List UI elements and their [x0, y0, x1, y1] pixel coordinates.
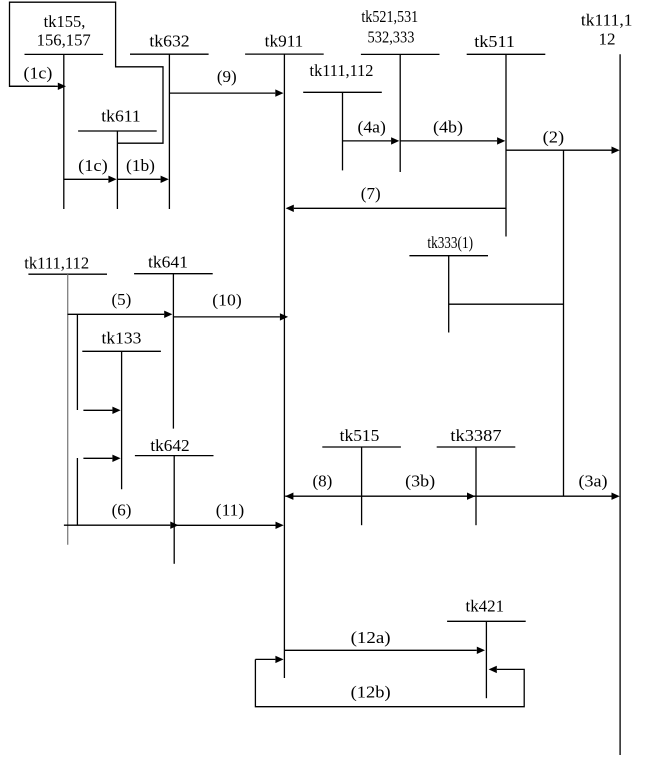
svg-text:tk111,112: tk111,112	[24, 254, 89, 273]
tk111,12 right lifeline	[619, 54, 621, 755]
svg-text:532,333: 532,333	[368, 28, 415, 47]
arrow (5): tk111,112 to tk641	[68, 313, 165, 315]
svg-text:tk133: tk133	[102, 329, 142, 348]
svg-text:tk111,1: tk111,1	[581, 11, 633, 30]
tk611 head bar	[78, 130, 157, 132]
tk111,112 left head bar	[28, 273, 107, 275]
arrow (11): tk642 to tk911	[174, 524, 275, 526]
arrowhead (12b) into tk421	[489, 666, 497, 673]
svg-text:tk111,112: tk111,112	[310, 61, 374, 80]
arrow (2): tk511 to tk111,12	[506, 149, 612, 151]
svg-text:(8): (8)	[312, 472, 332, 491]
tk155 lifeline	[63, 54, 65, 209]
svg-text:tk3387: tk3387	[450, 426, 502, 445]
wire tk333(1) link to drop wire	[449, 303, 564, 305]
arrow (1b): tk611 to tk632	[117, 178, 160, 180]
tk111,112 top lifeline	[342, 92, 344, 170]
svg-text:tk611: tk611	[101, 107, 141, 126]
tk611 lifeline	[116, 131, 118, 209]
svg-text:(12b): (12b)	[351, 682, 391, 701]
svg-text:(12a): (12a)	[351, 628, 391, 647]
tk632 lifeline	[168, 54, 170, 209]
arrow (4a): tk111,112 to tk521	[343, 140, 392, 142]
wire (1c) wrap path from tk611 around top-left	[10, 2, 164, 143]
tk911 lifeline	[283, 54, 285, 678]
wire (12b) hook into tk911	[255, 658, 275, 660]
svg-text:tk511: tk511	[474, 32, 515, 51]
tk3387 lifeline	[475, 447, 477, 525]
arrow (12a): tk911 to tk421	[285, 649, 477, 651]
svg-text:(4a): (4a)	[358, 117, 386, 136]
tk642 lifeline	[173, 456, 175, 564]
tk641 head bar	[134, 273, 213, 275]
wire branch down from arrow (5) row	[76, 314, 78, 410]
tk511 lifeline	[505, 54, 507, 236]
tk333(1) lifeline	[448, 256, 450, 333]
arrow to tk133 upper	[83, 409, 112, 411]
svg-text:tk642: tk642	[150, 436, 189, 455]
arrowhead (1c) into tk155 lifeline	[58, 83, 66, 90]
wire (12b) loop bottom	[255, 659, 524, 706]
tk515 head bar	[322, 446, 401, 448]
tk133 lifeline	[121, 351, 123, 489]
arrow (9): tk632 to tk911	[170, 92, 276, 94]
svg-text:tk333(1): tk333(1)	[427, 233, 473, 252]
svg-text:(11): (11)	[216, 501, 245, 520]
svg-text:(7): (7)	[361, 184, 381, 203]
svg-text:(1b): (1b)	[126, 156, 155, 175]
tk521 lifeline	[399, 54, 401, 172]
arrowhead (8) into tk911	[285, 493, 293, 500]
wire branch down to arrow (6) row	[76, 458, 78, 525]
tk521 head bar	[361, 53, 440, 55]
arrowhead (3a) into tk111,12	[612, 493, 620, 500]
svg-text:tk515: tk515	[340, 426, 380, 445]
wire drop from arrow (2) down to (3a) row	[563, 150, 565, 496]
svg-text:(3b): (3b)	[405, 472, 435, 491]
svg-text:tk911: tk911	[265, 32, 304, 51]
svg-text:tk521,531: tk521,531	[361, 7, 418, 26]
arrow (1c) mid: tk155 to tk611	[64, 178, 109, 180]
tk133 head bar	[82, 350, 161, 352]
svg-text:(10): (10)	[212, 290, 241, 309]
tk421 head bar	[447, 620, 526, 622]
svg-text:(2): (2)	[543, 127, 565, 146]
arrow to tk133 lower	[83, 457, 112, 459]
arrow (10): tk641 to tk911	[173, 316, 280, 318]
svg-text:(3a): (3a)	[579, 472, 608, 491]
svg-text:tk421: tk421	[466, 597, 505, 616]
svg-text:(1c): (1c)	[78, 156, 108, 175]
tk511 head bar	[467, 53, 546, 55]
svg-text:tk632: tk632	[149, 31, 189, 50]
svg-text:(9): (9)	[217, 67, 237, 86]
tk421 lifeline	[485, 621, 487, 698]
svg-text:tk155,: tk155,	[44, 12, 86, 31]
arrowhead (3b) into tk3387	[467, 493, 475, 500]
arrow (4b): tk521 to tk511	[400, 140, 497, 142]
svg-text:(1c): (1c)	[24, 63, 53, 82]
tk155 head bar	[25, 53, 104, 55]
svg-text:(5): (5)	[111, 290, 131, 309]
svg-text:(4b): (4b)	[433, 117, 463, 136]
arrow (7): tk511 to tk911	[294, 207, 506, 209]
tk3387 head bar	[437, 446, 516, 448]
tk515 lifeline	[361, 447, 363, 525]
tk632 head bar	[130, 53, 209, 55]
svg-text:(6): (6)	[112, 501, 132, 520]
wire (8)/(3b)/(3a) row from tk911 to tk111,12	[285, 495, 611, 497]
arrowhead (12b) into tk911	[275, 656, 283, 663]
tk111,112 left lifeline	[67, 274, 69, 545]
tk333(1) head bar	[409, 255, 488, 257]
arrow (6): tk111,112 to tk642	[64, 524, 170, 526]
tk642 head bar	[135, 455, 214, 457]
svg-text:12: 12	[599, 30, 616, 49]
tk911 head bar	[245, 53, 324, 55]
tk641 lifeline	[172, 274, 174, 429]
svg-text:tk641: tk641	[148, 253, 188, 272]
svg-text:156,157: 156,157	[37, 31, 92, 50]
tk111,112 top head bar	[303, 91, 382, 93]
